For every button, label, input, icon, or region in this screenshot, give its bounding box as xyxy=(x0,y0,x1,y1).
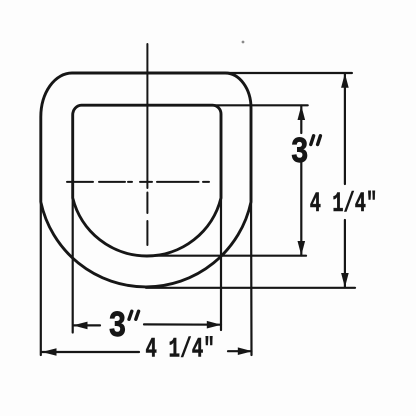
label 3 inch (bottom) xyxy=(109,306,127,346)
arrowhead: right 3 inch bottom xyxy=(298,241,306,256)
arrowhead: bottom 4 1/4 left xyxy=(42,348,57,356)
arrowhead: bottom 3 inch left xyxy=(73,322,88,330)
svg-text:4 1/4": 4 1/4" xyxy=(310,189,378,220)
scan speck xyxy=(242,41,245,44)
vertical centerline xyxy=(146,44,148,188)
dimension line: bottom 3 inch shafts xyxy=(73,324,221,325)
arrowhead: right 4 1/4 bottom xyxy=(341,273,349,288)
extension line: outer right vertical xyxy=(250,181,253,355)
extension line: inner left vertical xyxy=(72,181,74,333)
svg-text:3: 3 xyxy=(109,306,127,346)
extension line: outer left vertical xyxy=(40,181,42,355)
arrowhead: bottom 4 1/4 right xyxy=(238,347,253,355)
arrowhead: right 3 inch top xyxy=(298,106,306,121)
extension line: inner top edge extended right xyxy=(213,104,308,106)
dimension line: right 4 1/4 inch shafts xyxy=(344,74,346,288)
dimension line: bottom 4 1/4 inch shafts xyxy=(42,350,252,353)
inner ring contour xyxy=(73,105,221,256)
extension line: inner right vertical xyxy=(220,181,222,330)
horizontal centerline (dashed) xyxy=(67,181,209,183)
svg-text:3: 3 xyxy=(291,132,309,172)
extension line: inner arc bottom extended right xyxy=(147,255,306,257)
quote marks right 3 xyxy=(311,136,321,145)
outer ring contour xyxy=(41,73,251,287)
dimension line: right 3 inch shafts xyxy=(300,106,302,256)
extension line: outer top edge extended right xyxy=(226,72,352,74)
arrowhead: bottom 3 inch right xyxy=(207,321,222,329)
svg-text:4 1/4": 4 1/4" xyxy=(145,335,215,366)
quote marks bottom 3 xyxy=(129,311,139,319)
label 3 inch (right) xyxy=(291,132,309,172)
arrowhead: right 4 1/4 top xyxy=(341,73,349,88)
extension line: outer arc bottom extended right xyxy=(146,287,355,289)
